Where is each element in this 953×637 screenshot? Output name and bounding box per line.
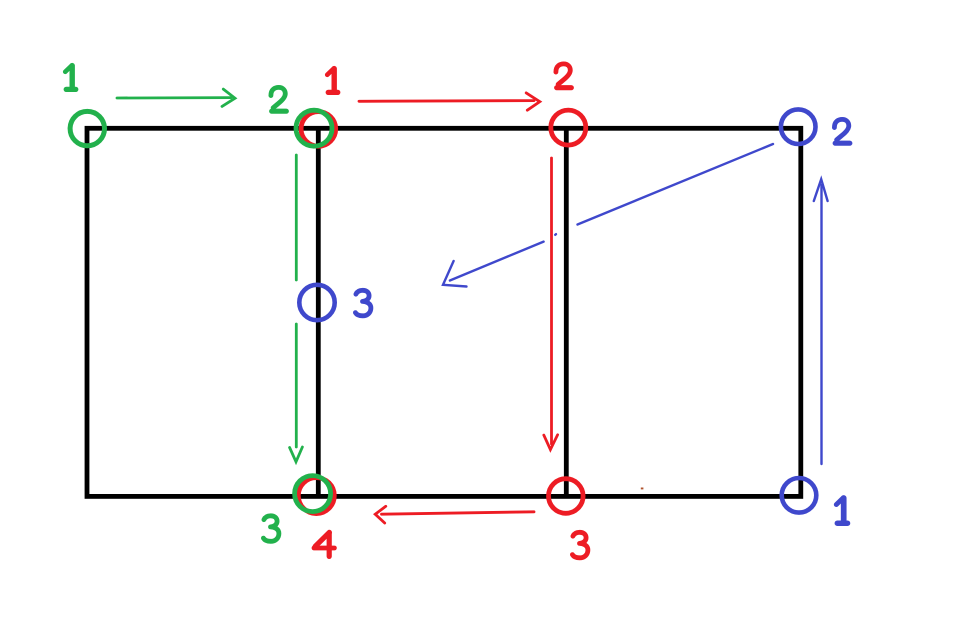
green circle 1 (top-left corner) [70, 111, 104, 145]
blue 3 [355, 290, 371, 316]
blue circle bottom-right [782, 478, 817, 513]
divider 1 [316, 128, 321, 496]
red arrow 3 (bottom horizontal, leftwards) [375, 506, 534, 523]
green 1 [65, 66, 76, 90]
blue 1 [836, 498, 847, 523]
green arrow 1 (top-left horizontal) [117, 89, 235, 106]
blue circle top-right [781, 109, 816, 144]
red circle 4 (divider1 bottom) [298, 478, 334, 514]
stray dot [641, 488, 644, 490]
green 2 [271, 87, 286, 111]
blue circle middle [299, 285, 334, 320]
rectangle grid: outer box [87, 128, 801, 496]
red 3 [572, 532, 588, 558]
blue arrow vertical up (right side) [814, 179, 828, 464]
green circle 3 (divider1 bottom) [295, 476, 331, 512]
red circle 3 (divider2 bottom) [549, 479, 584, 514]
red circle 2 (divider2 top) [551, 110, 586, 145]
red arrow 1 (top horizontal) [359, 93, 540, 110]
green circle 2 (divider1 top) [296, 110, 332, 146]
green arrow 2 (vertical down, gap at blue circle) [290, 155, 303, 462]
red circle 1 (divider1 top) [301, 112, 336, 147]
red arrow 2 (vertical down) [544, 158, 558, 450]
red 4 [314, 532, 334, 556]
red 2 [556, 64, 571, 88]
green 3 [263, 516, 279, 542]
red 1 [327, 69, 338, 93]
divider 2 [564, 128, 569, 496]
blue arrow diagonal (two segments + dot) [443, 144, 773, 287]
blue 2 [834, 119, 849, 143]
